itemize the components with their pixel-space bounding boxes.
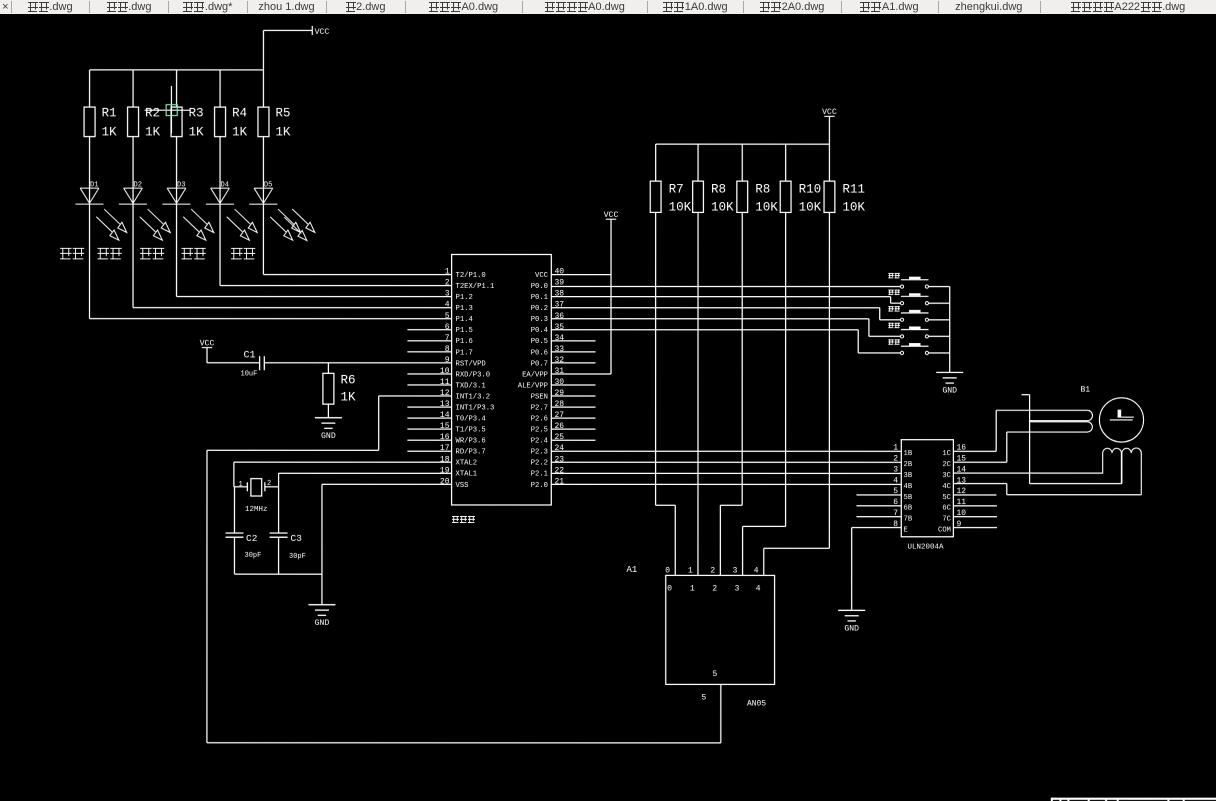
wire MCU pin 24 P2.3 to ULN pin 1 [551,450,901,452]
svg-text:COM: COM [938,527,951,535]
resistor R8 10K [737,144,778,214]
svg-text:17: 17 [440,444,450,453]
svg-text:P2.6: P2.6 [531,415,548,423]
A1 pin 2 [710,567,717,594]
svg-text:P2.2: P2.2 [531,460,548,468]
MCU pin 33 P0.6 [531,345,596,357]
ULN pin 4 4B [893,476,913,491]
wire R11 to A1 pin4 [764,212,830,575]
svg-text:INT1/3.2: INT1/3.2 [455,393,490,401]
svg-text:GND: GND [942,386,957,395]
wire ULN pin14 3C to winding [953,472,1102,474]
svg-text:30pF: 30pF [244,552,261,560]
switch S1 (forward) [888,273,949,288]
svg-text:10K: 10K [755,201,778,215]
MCU pin 16 WR/P3.6 [407,433,485,445]
svg-text:R10: R10 [799,183,822,197]
svg-text:4: 4 [754,567,759,576]
label accelerate (Chinese) [140,248,164,260]
wire MCU pin 21 P2.0 to ULN pin 4 [551,483,901,485]
svg-text:5: 5 [701,694,706,703]
ground switch common [936,372,963,395]
svg-text:C2: C2 [246,533,258,544]
driver IC ULN2004A body [901,440,953,537]
MCU pin 29 PSEN [531,389,596,401]
svg-text:1K: 1K [232,125,248,139]
LED D2 [119,137,170,241]
MCU pin 19 XTAL1 [440,466,477,478]
wire MCU pin 23 P2.2 to ULN pin 2 [551,461,901,463]
capacitor C3 30pF [270,487,306,574]
svg-text:2C: 2C [942,461,951,469]
svg-text:7: 7 [893,509,898,518]
MCU pin 36 P0.3 [531,312,565,324]
svg-text:R3: R3 [189,106,204,120]
resistor R8 10K [693,144,734,214]
svg-text:4: 4 [893,476,898,485]
switch S5 (stop) [888,339,949,354]
svg-text:29: 29 [555,389,565,398]
wire LED D4 cathode to MCU pin 2 [220,204,452,285]
MCU pin 14 T0/P3.4 [407,411,485,423]
svg-text:10K: 10K [799,201,822,215]
MCU pin 10 RXD/P3.0 [407,367,490,379]
resistor R4 1K [215,70,248,140]
svg-text:22: 22 [554,466,564,475]
svg-text:1: 1 [445,268,450,277]
label forward (Chinese) [60,248,84,260]
wire VCC to C1 [207,348,260,363]
lone emission arrows (stray) [284,209,315,241]
ground VSS [308,605,335,628]
LED D4 [206,137,257,241]
ULN pin 8 E [893,520,908,535]
ULN pin 15 2C [942,455,966,470]
svg-text:P1.4: P1.4 [456,316,473,324]
MCU pin 32 P0.7 [531,356,596,368]
wire MCU pin 36 P0.3 to switch 4 [551,319,900,337]
wire capacitor common rail [234,573,321,575]
svg-text:1: 1 [238,481,242,489]
svg-text:36: 36 [555,312,565,321]
svg-text:XTAL2: XTAL2 [455,460,477,468]
stator winding left (scallops) [1103,448,1122,483]
svg-text:C3: C3 [290,533,302,544]
svg-text:P2.4: P2.4 [531,438,548,446]
svg-text:27: 27 [554,411,564,420]
stator winding right (scallops) [1122,448,1141,495]
svg-text:6: 6 [445,323,450,332]
svg-text:33: 33 [555,345,565,354]
ULN pin 1 1B [893,444,913,459]
svg-text:P1.5: P1.5 [456,327,473,335]
A1 pin 1 [688,567,695,594]
svg-text:P0.7: P0.7 [531,360,548,368]
svg-text:P0.0: P0.0 [531,283,548,291]
svg-text:PSEN: PSEN [531,393,548,401]
ULN pin 9 COM [938,520,997,535]
resistor R7 10K [650,144,691,214]
svg-text:P2.3: P2.3 [531,449,548,457]
ULN pin 13 4C [942,476,966,491]
svg-text:15: 15 [440,422,450,431]
svg-text:ALE/VPP: ALE/VPP [518,382,548,390]
svg-text:P0.2: P0.2 [531,305,548,313]
svg-text:R6: R6 [341,373,356,387]
svg-text:6: 6 [893,498,898,507]
MCU pin 13 INT1/P3.3 [407,400,494,412]
svg-text:26: 26 [554,422,564,431]
label AN05 [747,700,766,709]
svg-text:R2: R2 [145,106,160,120]
resistor R2 1K [128,70,161,140]
svg-text:16: 16 [440,433,450,442]
svg-text:10K: 10K [669,201,692,215]
svg-text:P2.1: P2.1 [531,471,548,479]
tab zhou 1.dwg [247,0,326,14]
ULN pin 3 3B [893,466,913,481]
wire switch common to ground [949,287,951,373]
wire MCU pin 38 P0.1 to switch 2 [551,297,900,304]
svg-text:10: 10 [956,509,966,518]
svg-text:RST/VPD: RST/VPD [456,360,486,368]
MCU pin 20 VSS [440,477,469,489]
svg-text:5: 5 [712,670,717,679]
wire ULN pin8 E to ground [852,528,902,611]
wire R8 to A1 pin1 [697,212,699,575]
tab zongzhuangtuA0.dwg [405,0,522,14]
svg-text:6B: 6B [903,505,912,513]
resistor R5 1K [258,70,291,140]
svg-text:1K: 1K [102,125,118,139]
wire R10 to A1 pin3 [743,212,786,575]
wire VCC column to pin40 and pin31 [551,219,611,374]
ULN pin 6 6B [856,498,912,513]
svg-text:1K: 1K [145,125,161,139]
svg-text:0: 0 [667,585,672,594]
svg-text:P0.1: P0.1 [531,294,548,302]
svg-text:0: 0 [665,567,670,576]
MCU pin 25 P2.4 [531,433,596,445]
svg-text:1: 1 [690,585,695,594]
tab guntongA1.dwg [841,0,938,14]
MCU pin 23 P2.2 [531,455,565,467]
MCU pin 21 P2.0 [531,477,565,489]
label A1 [626,565,637,575]
svg-text:T2/P1.0: T2/P1.0 [456,272,486,280]
svg-text:20: 20 [440,477,450,486]
wire MCU pin18 XTAL2 to crystal pin1 [234,462,452,487]
MCU pin 30 ALE/VPP [518,378,596,390]
resistor R1 1K [84,70,117,140]
svg-text:3: 3 [735,585,740,594]
svg-text:3B: 3B [903,472,912,480]
svg-text:10: 10 [440,367,450,376]
LED D3 [162,137,213,241]
svg-text:P0.6: P0.6 [531,349,548,357]
MCU pin 1 T2/P1.0 [445,268,486,280]
svg-text:2B: 2B [903,461,912,469]
svg-text:3: 3 [893,466,898,475]
wire ULN pin12 stub [953,494,996,496]
svg-text:2: 2 [893,455,898,464]
svg-text:23: 23 [554,455,564,464]
svg-text:GND: GND [844,624,859,633]
label stop (Chinese) [231,248,255,260]
power symbol VCC top-left [263,26,329,37]
svg-text:WR/P3.6: WR/P3.6 [455,438,485,446]
wire MCU pin19 XTAL1 to crystal pin2 [265,473,452,487]
MCU pin 15 T1/P3.5 [407,422,485,434]
svg-text:2: 2 [445,279,450,288]
svg-text:P0.3: P0.3 [531,316,548,324]
svg-text:2: 2 [267,480,271,488]
svg-text:7: 7 [445,334,450,343]
svg-text:GND: GND [321,432,336,441]
crystal Y1 12MHz [238,479,271,514]
svg-text:12MHz: 12MHz [245,506,268,514]
svg-text:6C: 6C [942,505,951,513]
sensor IC A1 body [666,575,775,684]
svg-text:P0.4: P0.4 [531,327,548,335]
wire MCU pin 37 P0.2 to switch 3 [551,308,900,320]
wire R7 to A1 pin0 [656,212,676,575]
resistor R3 1K [171,70,204,140]
tab zhengkui.dwg [938,0,1040,14]
wire VCC lead down to LED rail [262,30,264,70]
svg-text:R5: R5 [275,106,290,120]
svg-text:P1.3: P1.3 [456,305,473,313]
MCU pin 22 P2.1 [531,466,565,478]
MCU pin 39 P0.0 [531,279,565,291]
switch S2 (backward) [888,290,949,305]
svg-text:28: 28 [554,400,564,409]
svg-text:9: 9 [956,520,961,529]
svg-text:GND: GND [315,619,330,628]
svg-text:R4: R4 [232,106,247,120]
cursor pickbox (green) [166,105,177,116]
svg-text:5B: 5B [903,494,912,502]
ground ULN emitter [838,610,865,633]
A1 pin 5 [701,670,717,703]
svg-text:R11: R11 [842,183,865,197]
label MCU (Chinese danpianji) [452,516,475,523]
resistor R11 10K [824,144,865,214]
svg-text:38: 38 [555,290,565,299]
wire MCU pin 22 P2.1 to ULN pin 3 [551,472,901,474]
svg-text:3: 3 [733,567,738,576]
svg-text:XTAL1: XTAL1 [455,471,477,479]
resistor R6 1K [323,363,356,418]
MCU pin 34 P0.5 [531,334,596,346]
wire MCU pin 35 P0.4 to switch 5 [551,330,900,353]
svg-text:1: 1 [893,444,898,453]
tab duangai.dwg [89,0,168,14]
svg-text:P2.5: P2.5 [531,427,548,435]
svg-text:25: 25 [554,433,564,442]
svg-text:11: 11 [440,378,450,387]
svg-text:7C: 7C [942,516,951,524]
tab zhou2.dwg [326,0,405,14]
svg-text:21: 21 [554,477,564,486]
motor coil hairpin 2 [1007,422,1093,432]
tab close [0,0,11,14]
A1 pin 3 [733,567,740,594]
switch S3 (accelerate) [888,306,949,321]
wire LED D1 cathode to MCU pin 5 [90,204,452,319]
svg-text:12: 12 [440,389,450,398]
svg-text:R8: R8 [711,183,726,197]
tab guntongbujianA0.dwg [522,0,647,14]
svg-text:7B: 7B [903,516,912,524]
svg-text:P1.7: P1.7 [456,349,473,357]
MCU pin 8 P1.7 [407,345,472,357]
MCU pin 5 P1.4 [445,312,473,324]
ULN pin 11 6C [942,498,997,513]
svg-text:P2.7: P2.7 [531,404,548,412]
svg-text:19: 19 [440,466,450,475]
svg-text:3: 3 [445,290,450,299]
tab guibijigouA222print.dwg [1040,0,1216,14]
MCU pin 12 INT1/3.2 [440,389,490,401]
power symbol VCC near C1 [200,339,215,348]
svg-text:24: 24 [554,444,564,453]
svg-text:5: 5 [445,312,450,321]
capacitor C2 30pF [225,487,261,574]
ULN pin 5 5B [856,487,912,502]
svg-text:1K: 1K [275,125,291,139]
svg-text:1K: 1K [340,390,356,404]
MCU pin 35 P0.4 [531,323,565,335]
svg-text:T1/P3.5: T1/P3.5 [455,427,485,435]
svg-text:INT1/P3.3: INT1/P3.3 [455,404,494,412]
wire ULN pin13 4C to winding [953,484,1141,495]
wire pull-up resistor rail [656,143,830,145]
MCU pin 38 P0.1 [531,290,565,302]
svg-text:32: 32 [555,356,565,365]
A1 pin 4 [754,567,761,594]
svg-text:9: 9 [445,356,450,365]
svg-text:R7: R7 [669,183,684,197]
svg-text:A1: A1 [626,565,637,575]
svg-text:5: 5 [893,487,898,496]
MCU pin 6 P1.5 [407,323,472,335]
power symbol VCC MCU supply [604,211,619,220]
svg-text:30: 30 [555,378,565,387]
power symbol VCC pull-up rail [822,108,837,117]
MCU pin 18 XTAL2 [440,455,477,467]
MCU pin 4 P1.3 [445,301,473,313]
svg-text:RXD/P3.0: RXD/P3.0 [456,371,491,379]
svg-text:11: 11 [956,498,966,507]
MCU pin 28 P2.7 [531,400,596,412]
MCU pin 26 P2.5 [531,422,596,434]
svg-text:14: 14 [440,411,450,420]
svg-text:4: 4 [445,301,450,310]
wire MCU pin20 VSS to ground [322,484,452,604]
wire coil junction drop [1021,395,1121,484]
label decelerate (Chinese) [182,248,206,260]
MCU U1 (8051) body [452,254,552,505]
svg-text:P2.0: P2.0 [531,482,548,490]
svg-text:1B: 1B [903,450,912,458]
svg-text:2: 2 [710,567,715,576]
svg-text:40: 40 [555,268,565,277]
title block top edge [1051,799,1216,801]
ground R6 [315,418,342,441]
svg-text:10K: 10K [711,201,734,215]
svg-text:ULN2004A: ULN2004A [907,544,944,552]
wire VCC lead to resistor rail [828,116,830,144]
label motor B1 [1081,386,1091,395]
cursor crosshair [145,86,191,134]
svg-text:P1.6: P1.6 [456,338,473,346]
wire R8b to A1 pin2 [720,212,742,575]
motor B1 circle [1099,398,1143,442]
label backward (Chinese) [98,248,122,260]
svg-text:4B: 4B [903,483,912,491]
svg-text:C1: C1 [244,350,256,361]
MCU pin 2 T2EX/P1.1 [445,279,495,291]
svg-text:10uF: 10uF [241,370,258,378]
svg-text:VSS: VSS [455,482,468,490]
svg-text:3C: 3C [942,472,951,480]
MCU pin 9 RST/VPD [445,356,486,368]
svg-text:2: 2 [712,585,717,594]
wire LED supply rail [90,69,264,71]
MCU pin 37 P0.2 [531,301,565,313]
svg-text:1C: 1C [942,450,951,458]
wire C1 to MCU pin 9 RST [264,362,451,364]
wire MCU pin12 INT to A1 pin 5 (long loop) [207,396,721,743]
motor coil hairpin 1 [996,410,1092,420]
svg-text:AN05: AN05 [747,700,766,709]
svg-text:1K: 1K [189,125,205,139]
svg-text:1: 1 [688,567,693,576]
svg-text:VCC: VCC [535,272,549,280]
svg-text:30pF: 30pF [289,553,306,561]
tab yaobi.dwg [168,0,247,14]
MCU pin 17 RD/P3.7 [407,444,485,456]
svg-text:P0.5: P0.5 [531,338,548,346]
svg-text:35: 35 [555,323,565,332]
svg-text:37: 37 [555,301,565,310]
MCU pin 31 EA/VPP [522,367,564,379]
A1 pin 0 [665,567,672,594]
MCU pin 3 P1.2 [445,290,473,302]
ULN pin 10 7C [942,509,997,524]
svg-text:R1: R1 [102,106,117,120]
wire ULN pin15 2C to motor coil2 [953,432,1006,462]
switch S4 (decelerate) [888,323,949,338]
svg-text:4C: 4C [942,483,951,491]
svg-text:18: 18 [440,455,450,464]
wire MCU pin 39 P0.0 to switch 1 [551,285,900,287]
MCU pin 11 TXD/3.1 [407,378,485,390]
LED D1 [75,137,126,241]
svg-text:8: 8 [445,345,450,354]
wire LED D5 cathode to MCU pin 1 [263,204,451,274]
svg-text:B1: B1 [1081,386,1091,395]
svg-text:P1.2: P1.2 [456,294,473,302]
MCU pin 7 P1.6 [407,334,472,346]
svg-text:5C: 5C [942,494,951,502]
tab zhuce2A0.dwg [743,0,840,14]
svg-text:T0/P3.4: T0/P3.4 [455,415,485,423]
svg-text:VCC: VCC [315,28,330,37]
label ULN2004A [907,544,944,552]
ULN pin 14 3C [942,466,966,481]
